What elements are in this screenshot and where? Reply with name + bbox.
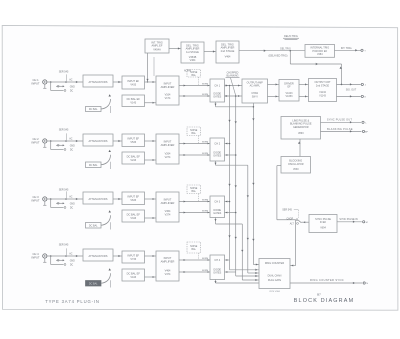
svg-text:V464: V464 (225, 56, 231, 59)
wire branch vertical down to CRT rail (340, 64, 342, 84)
ground stub below connector J1 (43, 84, 46, 88)
svg-text:SYNC PULSE IN: SYNC PULSE IN (339, 218, 357, 221)
svg-text:GATES: GATES (213, 212, 221, 215)
ground stub below connector J3 (43, 201, 46, 205)
svg-text:INPUT: INPUT (31, 81, 39, 85)
svg-text:B7: B7 (317, 292, 321, 296)
svg-text:DC: DC (70, 150, 74, 152)
svg-text:V974 V984: V974 V984 (269, 291, 281, 293)
svg-text:V533: V533 (130, 141, 136, 144)
connector J4 input (43, 254, 47, 258)
label NORM near trigger switch (184, 71, 191, 73)
box CH1 DIODE GATES (210, 79, 225, 102)
wire branch down from del trig wire (289, 51, 291, 64)
svg-text:CH 3: CH 3 (32, 195, 39, 199)
label AC GND DC of SW1 (69, 78, 75, 92)
box U10 SYNC PULSE EF (309, 215, 337, 233)
svg-text:V484: V484 (317, 53, 323, 56)
label sheet mark B7 (317, 292, 321, 296)
svg-text:NORM: NORM (202, 153, 209, 155)
svg-text:CH 2: CH 2 (32, 137, 39, 141)
svg-text:IN EF: IN EF (320, 221, 327, 224)
svg-text:V174: V174 (165, 97, 171, 100)
svg-text:V1053: V1053 (286, 95, 294, 98)
svg-text:BAL: BAL (192, 248, 197, 251)
svg-text:NOISE: NOISE (190, 246, 198, 248)
svg-text:DC BAL: DC BAL (89, 282, 98, 285)
svg-text:BLOCK DIAGRAM: BLOCK DIAGRAM (294, 298, 355, 304)
ground stub below connector J2 (43, 143, 46, 147)
wire CH3 gate drive stub down (214, 218, 216, 225)
label DEL TRIG above wire (280, 48, 291, 50)
svg-text:CH 1: CH 1 (32, 78, 39, 82)
svg-text:NORM: NORM (202, 270, 209, 272)
svg-text:J: J (365, 84, 366, 86)
svg-text:INPUT: INPUT (164, 198, 172, 202)
wire CRT lower output (337, 95, 361, 97)
wire CH2 upper rail to bus 1 (225, 143, 230, 145)
label NORM upper rail CH2 (202, 141, 209, 143)
svg-text:DC: DC (70, 265, 74, 267)
wire U6 to U7 upper (299, 83, 309, 85)
svg-text:INT. TRIG.: INT. TRIG. (341, 47, 353, 50)
svg-text:SER 545: SER 545 (59, 243, 69, 246)
label NORM upper rail CH3 (202, 199, 209, 201)
svg-text:NOISE: NOISE (190, 72, 198, 74)
switch SW3 input coupling (51, 191, 67, 208)
svg-text:DC BAL: DC BAL (89, 108, 98, 111)
svg-text:AC: AC (69, 78, 73, 81)
svg-text:BAL: BAL (192, 74, 197, 77)
svg-text:NORM: NORM (202, 83, 209, 85)
box U9 BLOCKING OSCILLATOR (281, 157, 311, 174)
wire CH2 gate drive stub down (214, 161, 216, 165)
svg-text:V454A: V454A (153, 49, 161, 52)
wire CH2 gate drive horizontal (216, 164, 248, 166)
svg-text:V633: V633 (130, 199, 136, 202)
svg-text:NORM: NORM (202, 94, 209, 96)
wire CH1 upper rail to output amplifier (225, 84, 243, 86)
terminal CRT lower (361, 95, 366, 98)
svg-text:CHOP: CHOP (286, 218, 293, 220)
svg-text:GND: GND (70, 203, 75, 205)
label NORM upper rail CH1 (202, 83, 209, 85)
svg-text:SER 545: SER 545 (59, 129, 69, 132)
box CH1 ATTENUATORS (83, 75, 113, 87)
wire amplifier lower rail CH1 (179, 95, 210, 97)
svg-text:BAL: BAL (192, 132, 197, 135)
box CH3 DIODE GATES (210, 196, 225, 218)
label CH 3 INPUT (31, 195, 39, 203)
svg-text:SER 545: SER 545 (59, 188, 69, 191)
bus 3 stub into ring counter (242, 279, 259, 281)
wire CH3 upper rail to bus 1 (225, 201, 230, 203)
svg-text:INPUT: INPUT (31, 140, 39, 144)
box CH4 DC BAL control (86, 281, 102, 287)
box CH3 INPUT AMPLIFIER (156, 192, 179, 222)
wire input CH2 to attenuator (47, 140, 83, 142)
label CH 4 INPUT (31, 252, 39, 260)
box CH2 DC BAL control (86, 162, 102, 168)
svg-text:V374: V374 (165, 213, 171, 216)
box CH1 NOISE BAL dashed (187, 70, 201, 86)
wire branch horizontal to CRT rail (290, 63, 341, 65)
box CH3 NOISE BAL dashed (187, 185, 201, 202)
wire DC BAL control arrow CH1 (101, 94, 111, 113)
svg-text:SIG. OUT: SIG. OUT (346, 89, 357, 92)
svg-text:V694: V694 (320, 226, 326, 229)
label SYNC PULSE IN (339, 218, 357, 221)
svg-text:RING COUNTER: RING COUNTER (265, 262, 285, 265)
svg-text:DC: DC (70, 208, 74, 210)
svg-text:INPUT EF: INPUT EF (127, 79, 139, 83)
svg-text:GATES: GATES (213, 96, 221, 99)
label CHOP (286, 218, 293, 220)
wire CH3 gate drive horizontal (216, 223, 243, 225)
wire ring counter sync output (290, 282, 362, 284)
wire U5 to U6 lower (268, 95, 280, 97)
box CH3 INPUT EF (122, 192, 145, 205)
svg-text:EF: EF (287, 85, 291, 88)
terminal blanking pulse (362, 130, 368, 133)
svg-text:INPUT: INPUT (31, 198, 39, 202)
svg-text:SER 545: SER 545 (282, 209, 292, 212)
svg-text:ALT: ALT (290, 222, 295, 225)
wire input CH1 to attenuator (47, 81, 83, 83)
box CH4 DIODE GATES (210, 255, 225, 280)
wire CH1 lower rail to output amplifier (225, 95, 243, 97)
svg-text:AC: AC (69, 195, 73, 198)
svg-text:GATES: GATES (213, 272, 221, 275)
bus 2 stub into ring counter (236, 275, 259, 277)
label SER 545 CH4 (59, 243, 69, 246)
svg-text:GND: GND (70, 260, 75, 262)
svg-text:1st STAGE: 1st STAGE (186, 50, 199, 54)
bus 5 vertical from output amplifier and CH1 drive (252, 103, 254, 265)
bus 4 vertical from CH2 gate drive (247, 165, 249, 273)
label CH 1 INPUT (31, 78, 39, 86)
label DELAYED TRIG below wire (269, 54, 288, 57)
wire DC BAL EF to amplifier CH2 (145, 159, 157, 161)
svg-text:NOISE: NOISE (190, 130, 198, 132)
svg-text:SYNC PULSE OUT: SYNC PULSE OUT (327, 119, 353, 122)
wire input EF to amplifier CH2 (145, 140, 157, 142)
box U8 LINE PULSE AND BLANKING PULSE GENERATOR (281, 117, 321, 140)
svg-text:CH 1: CH 1 (214, 85, 220, 88)
label SER 545 CH3 (59, 188, 69, 191)
label RING COUNTER SYNC (310, 278, 344, 282)
svg-text:DC BAL EF: DC BAL EF (127, 154, 141, 158)
terminal sync pulse out (362, 121, 367, 124)
box CH4 NOISE BAL dashed (187, 242, 201, 260)
box CH2 INPUT EF (122, 134, 145, 147)
svg-text:V630: V630 (293, 168, 299, 171)
svg-text:DEL TRIG: DEL TRIG (280, 48, 291, 50)
bus 1 stub into ring counter (230, 269, 260, 271)
wire trig pickoff vertical 1 from U1 down to CH1 signal (146, 53, 148, 83)
svg-text:(DELAYED TRIG): (DELAYED TRIG) (269, 54, 288, 57)
wire input EF to amplifier CH3 (145, 198, 157, 200)
box U2 DEL TRIG AMPLIFIER 1st STAGE (181, 42, 204, 63)
svg-text:V474: V474 (165, 273, 171, 276)
switch SW4 input coupling (51, 248, 67, 265)
wire DC BAL EF to amplifier CH4 (145, 276, 157, 278)
svg-text:DC BAL EF: DC BAL EF (127, 271, 141, 275)
wire attenuator to input EF CH4 (113, 255, 122, 257)
wire DC BAL control arrow CH2 (101, 150, 111, 169)
connector J1 input (43, 80, 47, 84)
box U5 OUTPUT AMPL (242, 79, 268, 103)
label AC GND DC of SW2 (69, 137, 75, 151)
wire DC BAL control arrow CH3 (101, 210, 111, 229)
svg-text:AMPLIFIER: AMPLIFIER (161, 143, 175, 147)
svg-text:V733: V733 (130, 258, 136, 261)
wire input CH4 to attenuator (47, 255, 83, 257)
svg-text:V343: V343 (130, 217, 136, 220)
box U3 DEL TRIG AMPLIFIER 2nd STAGE (216, 41, 239, 63)
svg-text:INPUT EF: INPUT EF (127, 195, 139, 199)
svg-text:SW V: SW V (252, 95, 259, 98)
label BLANKING PULSE (327, 128, 353, 131)
svg-text:CH 4: CH 4 (32, 252, 39, 256)
label SER 545 CH1 (59, 71, 69, 74)
switch SW1 input coupling (51, 74, 67, 91)
svg-text:V893: V893 (298, 132, 304, 135)
svg-text:M: M (366, 222, 368, 224)
terminal INT TRIG output (361, 49, 366, 52)
svg-text:AC: AC (69, 137, 73, 140)
svg-text:ATTENUATORS: ATTENUATORS (89, 80, 108, 84)
label AC GND DC of SW3 (69, 195, 75, 209)
svg-text:BLANKING: BLANKING (226, 74, 238, 77)
box CH4 INPUT AMPLIFIER (156, 251, 179, 281)
svg-text:NORM: NORM (202, 210, 209, 212)
svg-text:NORM: NORM (202, 258, 209, 260)
box CH4 ATTENUATORS (83, 249, 113, 261)
wire trig pickoff vertical 2 down to CH1 amplifier (153, 57, 155, 76)
wire CH4 gate drive horizontal (216, 282, 260, 284)
connector J2 input (43, 139, 47, 143)
svg-text:AMPLIFIER: AMPLIFIER (161, 85, 175, 89)
wire input EF to amplifier CH4 (145, 255, 157, 257)
label AC GND DC of SW4 (69, 252, 75, 266)
bus 5 stub into ring counter (253, 263, 259, 265)
box U1 INT TRIG AMPL EF (145, 39, 169, 53)
wire CH3 lower rail to bus 2 (225, 212, 236, 214)
svg-text:GND: GND (70, 86, 75, 88)
svg-text:2nd STAGE: 2nd STAGE (316, 84, 329, 87)
svg-text:GATES: GATES (213, 155, 221, 158)
svg-text:V433: V433 (130, 83, 136, 86)
label NORM upper rail CH4 (202, 258, 209, 260)
wire DC BAL control arrow CH4 (101, 268, 111, 287)
svg-text:GENERATOR: GENERATOR (293, 126, 309, 129)
svg-text:DC BAL: DC BAL (89, 164, 98, 167)
wire blocking osc to pulse generator (298, 139, 300, 157)
box U11 RING COUNTER DUAL CHAN DUAL GATE (259, 259, 290, 289)
svg-text:ATTENUATORS: ATTENUATORS (89, 139, 108, 143)
svg-text:V143: V143 (130, 102, 136, 105)
svg-text:INPUT EF: INPUT EF (127, 137, 139, 141)
wire CH4 upper rail to bus 1 (225, 259, 230, 261)
svg-text:DC BAL EF: DC BAL EF (127, 97, 141, 101)
label TYPE 3A74 PLUG-IN (45, 299, 99, 304)
wire amplifier upper rail CH4 (179, 259, 210, 261)
box CH4 INPUT EF (122, 251, 145, 263)
box CH1 INPUT EF (122, 76, 145, 89)
label ALT (290, 222, 295, 225)
svg-text:INPUT: INPUT (31, 255, 39, 259)
wire amplifier lower rail CH3 (179, 211, 210, 213)
svg-text:AMPLIFIER: AMPLIFIER (161, 259, 175, 263)
wire input EF to amplifier CH1 (145, 81, 157, 83)
svg-text:DC: DC (70, 91, 74, 93)
svg-text:CH 4: CH 4 (214, 259, 220, 262)
svg-text:DUAL CHAN: DUAL CHAN (268, 275, 282, 278)
svg-text:V274: V274 (165, 156, 171, 159)
label DEL'D TRIG TRIGGER (283, 35, 299, 40)
box CH2 DC BAL EF (122, 152, 145, 164)
box CH2 DIODE GATES (210, 138, 225, 161)
node junction on del trig wire (290, 50, 292, 52)
svg-text:INPUT: INPUT (164, 82, 172, 86)
bus 3 vertical from CH3 gate drive (241, 224, 243, 280)
connector J3 input (43, 197, 47, 201)
wire DC BAL EF to amplifier CH3 (145, 217, 157, 219)
wire attenuator to input EF CH2 (113, 140, 122, 142)
svg-text:AC: AC (69, 252, 73, 255)
wire sync pulse box output (337, 221, 362, 223)
wire sync pulse out (321, 121, 362, 123)
svg-text:CH 2: CH 2 (214, 143, 220, 146)
label V numbers under ring counter (269, 291, 281, 293)
svg-text:INPUT EF: INPUT EF (127, 253, 139, 257)
svg-text:BAL: BAL (192, 190, 197, 193)
label SER 545 near switch (282, 209, 298, 219)
svg-text:DC BAL: DC BAL (89, 224, 98, 227)
box CH2 INPUT AMPLIFIER (156, 134, 179, 164)
wire attenuator to input EF CH1 (113, 81, 122, 83)
box CH2 NOISE BAL dashed (187, 127, 201, 144)
label SER 545 CH2 (59, 129, 69, 132)
wire int trig output (335, 49, 361, 51)
wire CH4 gate drive stub down (214, 280, 216, 284)
svg-text:SER 545: SER 545 (59, 71, 69, 74)
box CH2 ATTENUATORS (83, 134, 113, 146)
wire U2 to U3 (204, 50, 216, 52)
ground stub below connector J4 (43, 258, 46, 262)
wire U5 to U6 upper (268, 83, 280, 85)
terminal sync pulse in (363, 221, 368, 224)
box CH1 INPUT AMPLIFIER (156, 76, 179, 105)
svg-text:RING COUNTER SYNC: RING COUNTER SYNC (310, 278, 344, 282)
switch SW2 input coupling (51, 133, 67, 150)
svg-text:DC BAL EF: DC BAL EF (127, 212, 141, 216)
box U7 OUTPUT CRT 2nd STAGE (309, 79, 337, 102)
wire switch to sync pulse box (301, 221, 309, 223)
wire DC BAL EF to amplifier CH1 (145, 102, 157, 104)
wire amplifier upper rail CH3 (179, 200, 210, 202)
svg-text:V443: V443 (130, 276, 136, 279)
wire CH2 lower rail to bus 2 (225, 154, 236, 156)
svg-text:TYPE 3A74 PLUG-IN: TYPE 3A74 PLUG-IN (45, 299, 99, 304)
wire amplifier lower rail CH4 (179, 271, 210, 273)
svg-text:INPUT: INPUT (164, 256, 172, 260)
label SYNC PULSE OUT (327, 119, 353, 122)
svg-text:ATTENUATORS: ATTENUATORS (89, 254, 108, 258)
bus 4 stub into ring counter (248, 272, 259, 274)
wire blanking pulse out (321, 130, 362, 132)
wire U6 to U7 lower (299, 95, 309, 97)
wire U3 to internal trig pickoff (239, 50, 305, 52)
box CH3 DC BAL EF (122, 210, 145, 222)
svg-text:CH 3: CH 3 (214, 201, 220, 204)
svg-text:V243: V243 (130, 159, 136, 162)
wire blocking osc left and down to chop alt switch (277, 166, 296, 220)
svg-text:BLANKING PULSE: BLANKING PULSE (327, 128, 353, 131)
svg-text:GND: GND (70, 145, 75, 147)
svg-text:OSCILLATOR: OSCILLATOR (288, 163, 304, 166)
label BLOCK DIAGRAM title (294, 298, 355, 304)
bus 2 vertical collector lower (235, 95, 237, 276)
svg-text:INPUT: INPUT (164, 140, 172, 144)
wire chopped blanking diagonal (231, 78, 236, 96)
label CHOPPED BLANKING (226, 71, 240, 77)
terminal ring counter sync (363, 282, 368, 285)
svg-text:ATTENUATORS: ATTENUATORS (89, 197, 108, 201)
wire CH1 gate drive horizontal (216, 106, 254, 108)
box CH3 ATTENUATORS (83, 192, 113, 204)
box U6 DRIVER EF (279, 80, 299, 102)
svg-text:DUAL GATE: DUAL GATE (268, 279, 282, 282)
box U4 INTERNAL TRIG PICKOFF EF (305, 45, 335, 58)
box CH1 DC BAL control (86, 107, 102, 112)
switch SW chop alt contacts (296, 219, 301, 225)
box CH4 DC BAL EF (122, 269, 145, 281)
box CH3 DC BAL control (86, 223, 102, 229)
wire input CH3 to attenuator (47, 198, 83, 200)
label NORM lower rail CH2 (202, 153, 209, 155)
box CH1 DC BAL EF (122, 95, 145, 107)
svg-text:V1143: V1143 (319, 94, 326, 97)
label NORM lower rail CH3 (202, 210, 209, 212)
svg-text:NORM: NORM (202, 199, 209, 201)
svg-text:AMPLIFIER: AMPLIFIER (161, 201, 175, 205)
label SIG OUT (346, 89, 357, 92)
wire amplifier upper rail CH1 (179, 84, 210, 86)
svg-text:DEL'D TRIG: DEL'D TRIG (284, 35, 298, 38)
svg-text:2nd STAGE: 2nd STAGE (221, 49, 235, 53)
label INT TRIG (341, 47, 353, 50)
svg-text:AMPL EF: AMPL EF (151, 44, 162, 48)
wire amplifier lower rail CH2 (179, 154, 210, 156)
wire attenuator to input EF CH3 (113, 198, 122, 200)
label CH 2 INPUT (31, 137, 39, 145)
svg-text:AC AMPL: AC AMPL (250, 85, 261, 88)
label NORM lower rail CH4 (202, 270, 209, 272)
wire switch down to ring counter (290, 220, 296, 267)
label NORM lower rail CH1 (202, 94, 209, 96)
wire U1 to U2 (169, 47, 181, 49)
wire CH4 lower rail to bus 2 (225, 271, 236, 273)
bus 1 vertical collector upper (228, 85, 230, 270)
wire amplifier upper rail CH2 (179, 142, 210, 144)
svg-text:V464: V464 (190, 59, 196, 62)
terminal CRT upper (361, 83, 366, 86)
svg-text:NOISE: NOISE (190, 188, 198, 190)
wire CRT upper output (337, 83, 361, 85)
wire CH1 gate drive stub down (214, 102, 216, 107)
